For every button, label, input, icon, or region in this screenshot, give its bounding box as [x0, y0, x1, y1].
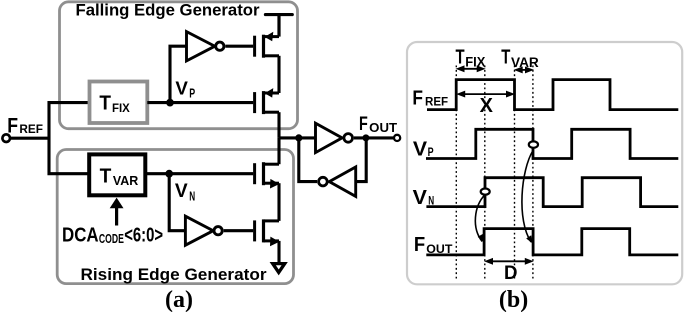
waveform VP: [426, 129, 678, 158]
wire FREF branch to TFIX and TVAR: [49, 103, 90, 174]
block TFIX: [90, 82, 148, 124]
svg-text:Falling Edge Generator: Falling Edge Generator: [76, 2, 261, 20]
waveform FREF: [427, 80, 678, 110]
wire output node to inverter U3: [279, 136, 316, 139]
svg-text:(a): (a): [165, 287, 193, 312]
wire M4 source to ground: [277, 241, 280, 263]
junction output feedback: [295, 134, 302, 141]
terminal FREF: [2, 134, 10, 142]
box Falling Edge Generator: [60, 2, 298, 129]
timing guide line 4: [532, 66, 534, 280]
wire U2 to M4 gate: [224, 229, 254, 232]
wire U3 to FOUT terminal: [354, 136, 394, 139]
junction VN: [165, 170, 173, 178]
transistor M2 PMOS: [255, 91, 279, 114]
wire M3 source to M4 drain: [277, 183, 280, 221]
arrow DCA to TVAR: [115, 208, 118, 226]
waveform FOUT: [426, 229, 678, 255]
waveform VN: [426, 178, 678, 207]
junction VP: [166, 99, 174, 107]
inverter U3: [316, 123, 343, 152]
transistor M1 PMOS: [255, 35, 279, 58]
ground: [273, 264, 285, 273]
wire VP to inverter U1: [170, 46, 187, 102]
wire output node to M3 drain: [277, 138, 280, 164]
arrow X span: [458, 91, 514, 96]
wire TVAR output node VN: [145, 172, 253, 175]
svg-text:X: X: [480, 95, 494, 117]
wire U1 to M1 gate: [225, 45, 253, 48]
block TVAR: [89, 154, 145, 195]
wire TFIX output to node VP: [147, 101, 253, 104]
junction FOUT: [362, 134, 369, 141]
wire vdd to M1 source: [277, 15, 280, 37]
wire U4 output to input node: [299, 138, 317, 182]
inverter U2: [185, 216, 213, 245]
arrow TFIX span: [457, 66, 484, 71]
arrow TVAR span: [515, 67, 533, 72]
timing guide line 1: [455, 66, 457, 280]
arrow D span: [485, 259, 532, 264]
inverter U4 feedback: [329, 167, 355, 196]
timing guide line 3: [514, 66, 516, 280]
marker circle VP falling edge: [529, 141, 538, 147]
wire VN to inverter U2: [169, 174, 185, 231]
inverter U1: [187, 32, 215, 61]
box Rising Edge Generator: [57, 150, 293, 284]
wire feedback down: [356, 138, 367, 182]
vdd rail: [265, 13, 292, 16]
svg-text:D: D: [504, 262, 518, 284]
curved arrow VN rise to FOUT rise: [475, 195, 485, 242]
terminal FOUT: [394, 135, 400, 141]
svg-text:(b): (b): [499, 287, 528, 312]
curved arrow VP fall to FOUT fall: [522, 151, 533, 243]
transistor M4 NMOS: [255, 219, 279, 242]
wire M1 drain to M2 source: [277, 56, 280, 93]
panel b border: [407, 42, 682, 284]
transistor M3 NMOS: [255, 162, 279, 185]
timing guide line 2: [484, 66, 486, 280]
svg-text:Rising Edge Generator: Rising Edge Generator: [81, 265, 267, 284]
wire M2 drain to output node: [277, 112, 280, 138]
wire FREF horizontal: [11, 137, 51, 140]
marker circle VN rising edge: [481, 189, 490, 195]
